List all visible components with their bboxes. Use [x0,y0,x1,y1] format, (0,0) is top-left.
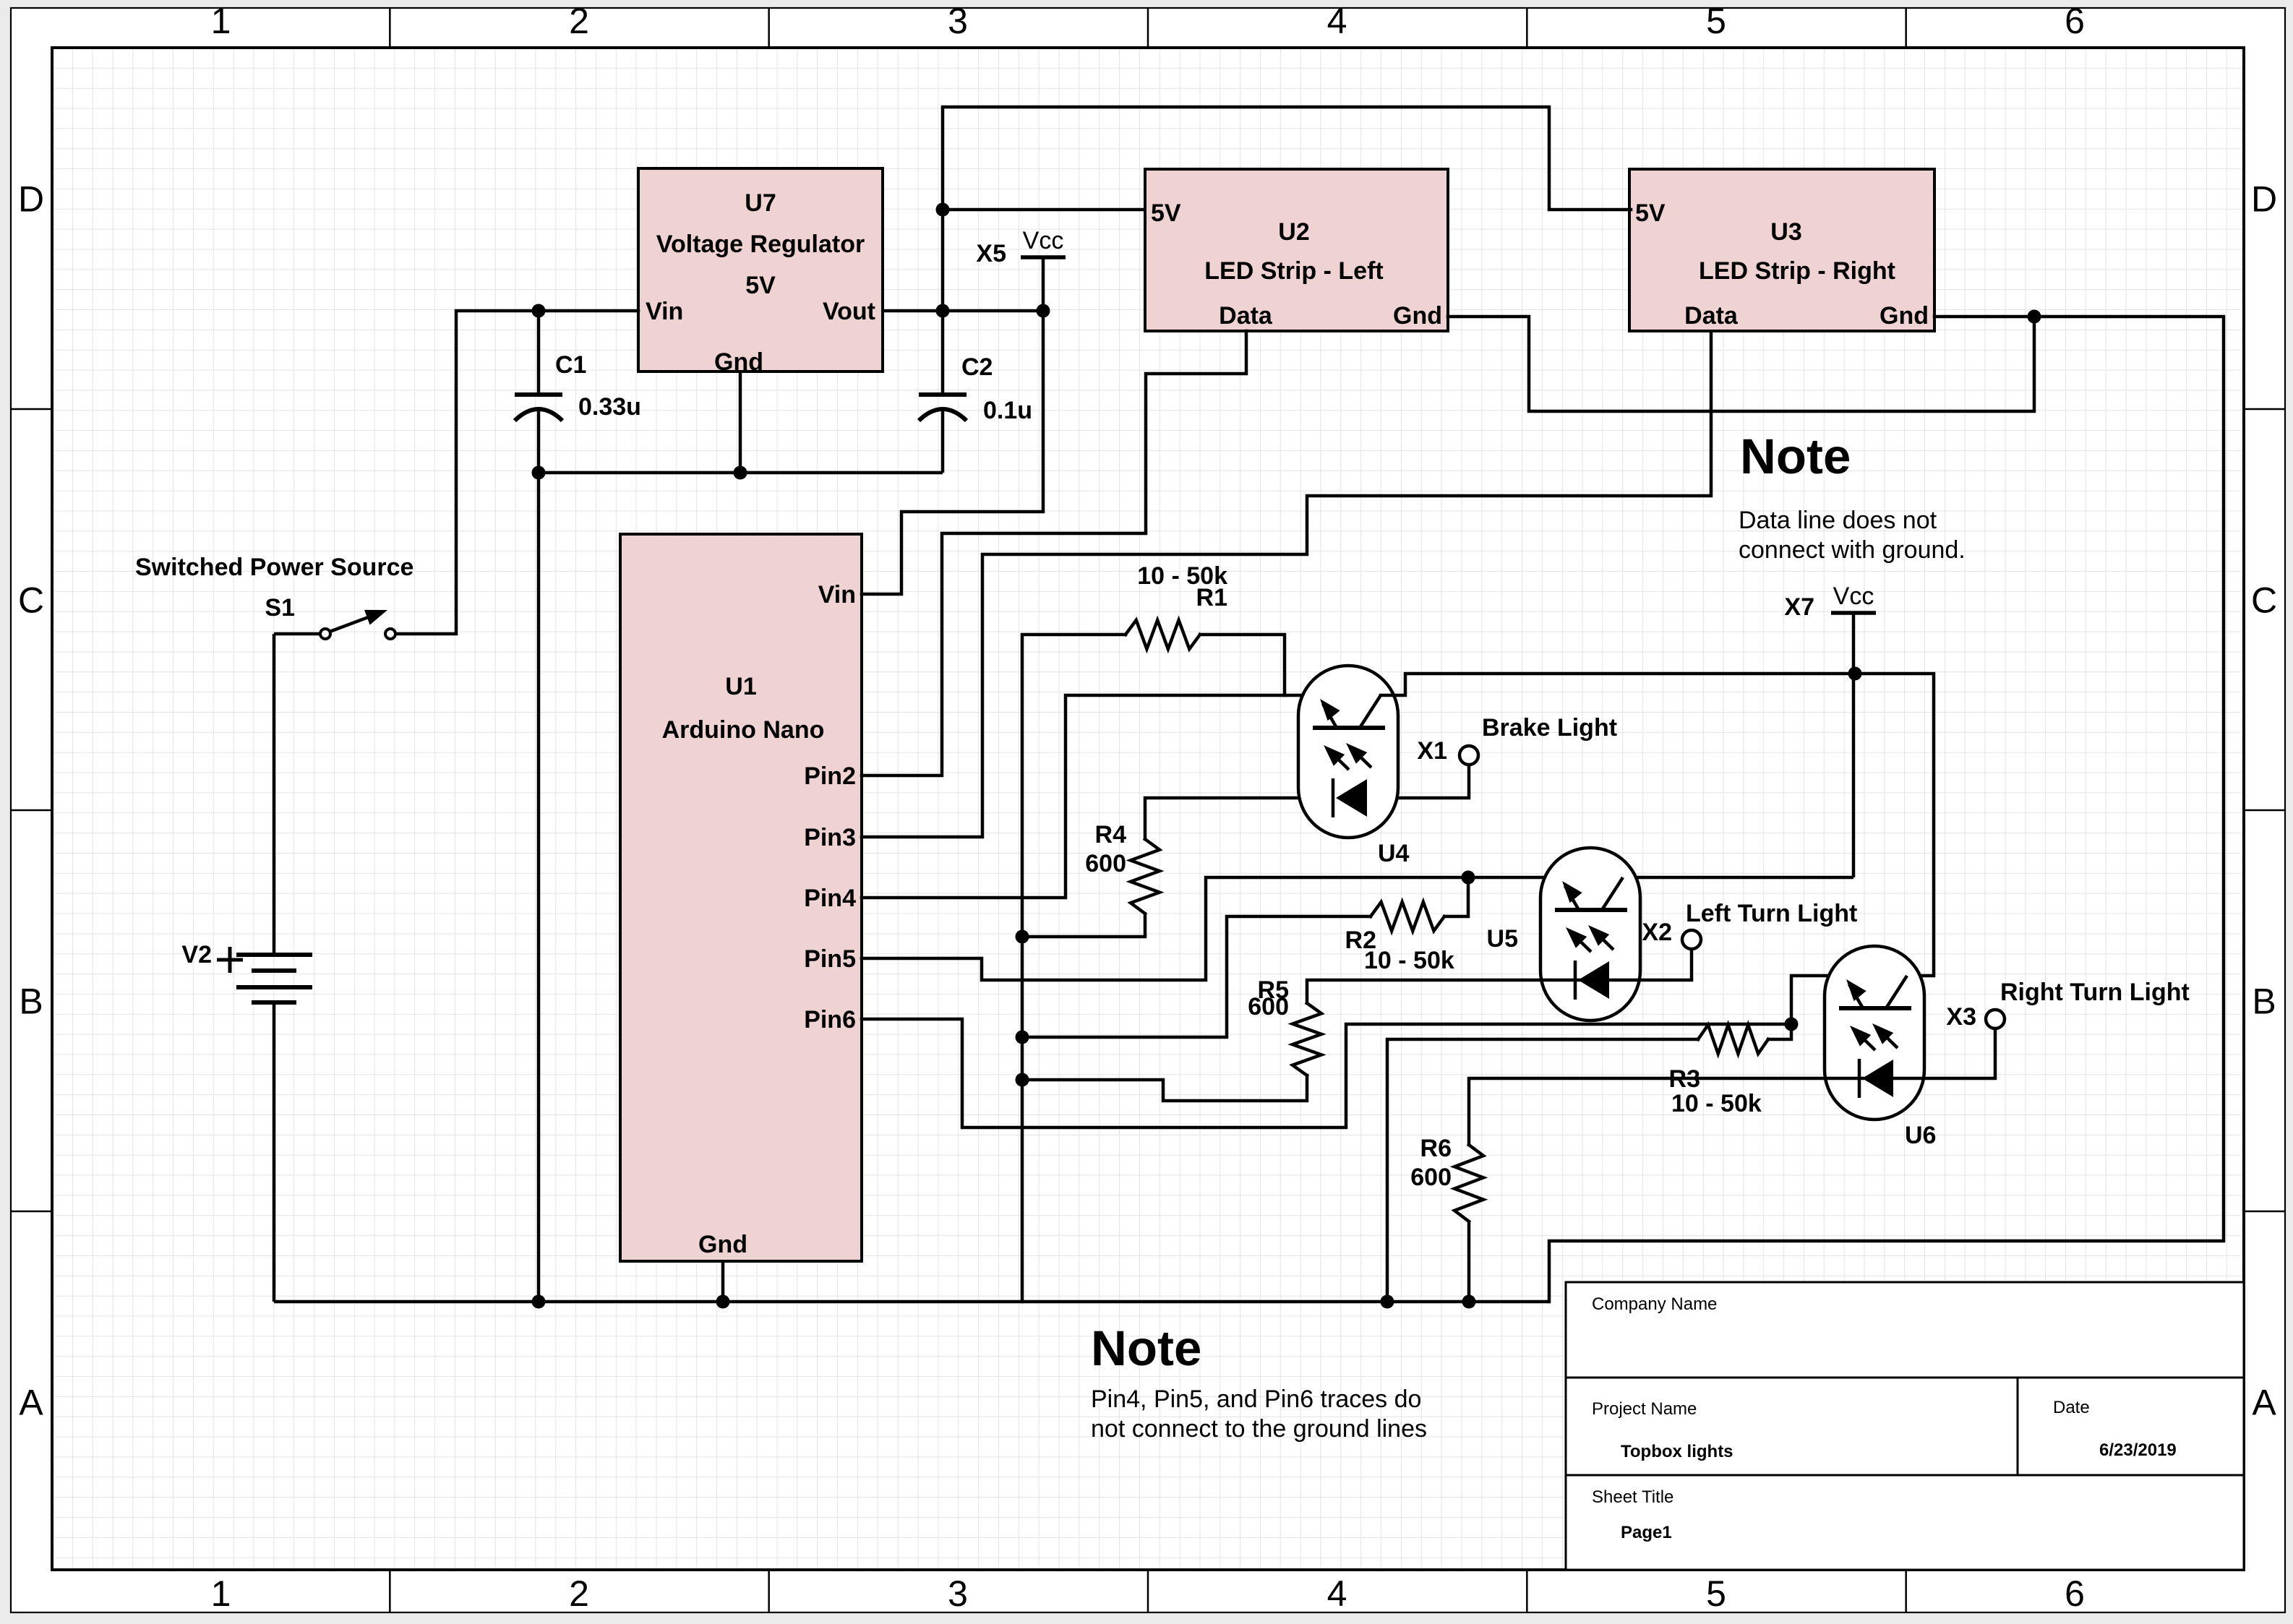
terminal X2 [1682,930,1701,949]
wire ground rail [274,1300,1549,1304]
svg-text:U6: U6 [1905,1122,1936,1149]
wire R1 right lead to emitter line [1200,635,1285,695]
wire Arduino Pin6 to U6 emitter branch [862,1019,1791,1127]
wire Vout node vertical (C2/5V riser) [941,107,945,311]
svg-text:5: 5 [1706,1,1726,41]
resistor R2 [1371,902,1444,931]
svg-text:U1: U1 [725,673,756,700]
junction R3/ground rail [1381,1295,1394,1309]
junction U3 Gnd node [2028,310,2041,324]
svg-text:Arduino Nano: Arduino Nano [662,716,825,744]
svg-text:Vin: Vin [818,581,856,609]
phototransistor U6 [1825,946,1924,1120]
svg-text:Pin4, Pin5, and Pin6 traces do: Pin4, Pin5, and Pin6 traces do [1091,1385,1421,1413]
wire U2 Gnd over to U3 Gnd node [1448,317,2034,411]
svg-text:Voltage Regulator: Voltage Regulator [656,231,865,258]
svg-text:2: 2 [569,1,589,41]
battery plus sign [217,947,243,973]
resistor R3 [1698,1025,1768,1054]
svg-text:Pin3: Pin3 [804,824,856,851]
svg-text:R4: R4 [1095,821,1127,848]
wire R5 bottom to pulldown bus [1022,1075,1307,1101]
svg-text:4: 4 [1327,1573,1347,1614]
svg-text:connect with ground.: connect with ground. [1739,536,1966,564]
svg-text:6: 6 [2065,1,2085,41]
svg-text:C1: C1 [555,351,586,379]
voltage regulator U7 [638,168,883,376]
wire R4 bottom to pulldown bus [1022,935,1145,939]
wire U5 collector to Vcc stem [1621,876,1853,880]
wire R1 left lead / pulldown bus down to ground rail [1022,635,1126,1302]
junction Vin/C1 [532,304,546,318]
svg-text:Note: Note [1740,429,1851,484]
wire Arduino Pin5 to U5 emitter [862,877,1561,980]
svg-text:Vin: Vin [646,298,683,325]
svg-text:not connect to the ground line: not connect to the ground lines [1091,1415,1427,1443]
svg-text:Pin6: Pin6 [804,1006,856,1034]
junction C1/gnd bus [532,466,546,480]
svg-text:3: 3 [948,1,968,41]
svg-text:U5: U5 [1487,925,1518,953]
Arduino Nano U1 [620,534,862,1261]
svg-text:Data line does not: Data line does not [1739,507,1937,534]
title block [1566,1282,2244,1570]
svg-text:U2: U2 [1278,218,1309,246]
capacitor C1 [515,311,562,473]
svg-text:6: 6 [2065,1573,2085,1614]
svg-text:10 - 50k: 10 - 50k [1364,947,1454,974]
junction R2/U5 emitter [1462,871,1475,885]
wire gnd bus U7/C1/C2 [539,471,943,475]
wire 5V branch to U2 5V pin [943,208,1145,212]
svg-text:Gnd: Gnd [698,1231,747,1258]
wire U2 Data to Arduino Pin2 [862,331,1246,776]
svg-text:U4: U4 [1378,840,1410,867]
svg-text:A: A [2252,1383,2276,1423]
svg-text:Note: Note [1091,1320,1201,1376]
svg-text:Vcc: Vcc [1023,227,1064,254]
svg-text:C: C [18,580,44,621]
capacitor C2 [919,311,967,473]
wire U4 collector to Vcc node [1381,674,1855,695]
svg-text:Topbox lights: Topbox lights [1621,1442,1733,1461]
power symbol X5 Vcc [1021,227,1066,257]
junction R6/ground rail [1462,1295,1476,1309]
wire X5 Vcc stem down to Arduino Vin [862,257,1043,594]
junction R5 branch [1016,1073,1029,1087]
junction U7 Gnd [734,466,747,480]
wire R3 left lead down to ground rail [1387,1039,1698,1302]
svg-text:10 - 50k: 10 - 50k [1137,562,1227,590]
svg-text:Pin4: Pin4 [804,885,856,912]
svg-text:5V: 5V [745,272,776,299]
wire R3 right lead to U6 emitter [1768,976,1844,1039]
wire Vcc to U6 collector [1855,674,1934,976]
junction Pin6/R3/U6 emitter [1785,1018,1799,1031]
svg-text:1: 1 [211,1573,231,1614]
svg-text:Pin5: Pin5 [804,945,856,973]
junction Vout/X5 [1037,304,1050,318]
svg-text:1: 1 [211,1,231,41]
wire U3 Gnd to right-edge ground return [1549,317,2224,1302]
svg-text:Sheet Title: Sheet Title [1592,1487,1673,1507]
svg-text:Company Name: Company Name [1592,1294,1717,1314]
resistor R1 [1126,620,1200,649]
switch S1 [274,610,395,639]
svg-text:Vout: Vout [823,298,875,325]
svg-text:5V: 5V [1151,199,1181,227]
svg-text:0.33u: 0.33u [578,393,641,421]
svg-text:LED Strip - Right: LED Strip - Right [1699,257,1895,285]
phototransistor U5 [1540,848,1640,1021]
svg-text:5: 5 [1706,1573,1726,1614]
resistor R6 [1454,1145,1483,1221]
svg-text:X2: X2 [1642,919,1672,946]
junction C1/ground rail [532,1295,546,1309]
wire 5V top rail from Vout node to U3 5V pin [943,107,1631,210]
svg-text:2: 2 [569,1573,589,1614]
LED strip U2 [1145,169,1448,331]
svg-text:D: D [18,179,44,220]
wire C1 down to ground rail [537,473,541,1302]
junction R2 branch [1016,1031,1029,1044]
svg-text:D: D [2251,179,2277,220]
svg-text:600: 600 [1410,1164,1452,1191]
svg-text:X7: X7 [1784,593,1814,621]
svg-text:Data: Data [1684,302,1739,330]
note pin traces [1091,1320,1427,1443]
wire X7 Vcc stem [1852,613,1856,877]
junction R4 bottom [1016,930,1029,944]
svg-text:B: B [2252,981,2276,1022]
svg-text:Data: Data [1219,302,1273,330]
wire U7 Vout to X5 Vcc node [881,309,1043,313]
svg-text:A: A [19,1383,43,1423]
svg-text:Project Name: Project Name [1592,1399,1697,1419]
terminal X1 [1460,746,1478,765]
svg-text:Vcc: Vcc [1833,583,1874,610]
svg-text:Switched Power Source: Switched Power Source [135,554,413,581]
svg-text:10 - 50k: 10 - 50k [1671,1090,1762,1117]
wire Arduino Pin3 to U3 Data [862,332,1711,837]
wire Arduino Gnd pin down [721,1261,725,1302]
svg-text:600: 600 [1085,850,1126,877]
svg-text:Gnd: Gnd [1393,302,1442,330]
svg-text:U3: U3 [1770,218,1801,246]
svg-text:X5: X5 [976,240,1006,267]
terminal X3 [1986,1010,2005,1028]
svg-text:X3: X3 [1946,1003,1976,1031]
svg-text:Date: Date [2053,1398,2090,1417]
svg-text:U7: U7 [745,189,776,217]
svg-text:5V: 5V [1635,199,1666,227]
svg-text:Brake Light: Brake Light [1482,714,1617,742]
svg-text:Pin2: Pin2 [804,762,856,790]
svg-text:Gnd: Gnd [1880,302,1929,330]
svg-text:R6: R6 [1420,1135,1452,1162]
svg-text:Right Turn Light: Right Turn Light [2000,979,2190,1006]
svg-text:LED Strip - Left: LED Strip - Left [1204,257,1383,285]
wire R2 left lead to pulldown bus [1022,916,1371,1037]
svg-text:S1: S1 [265,594,295,622]
note data line [1739,429,1966,564]
svg-text:4: 4 [1327,1,1347,41]
svg-text:0.1u: 0.1u [983,397,1032,424]
svg-text:3: 3 [948,1573,968,1614]
svg-text:Left Turn Light: Left Turn Light [1686,900,1857,927]
wire R5 top to U5 LED line and X2 [1307,980,1692,1003]
wire R2 right lead up to emitter line [1444,877,1468,916]
wire Arduino Pin4 to U4 emitter [862,695,1316,898]
junction Vout/C2 [936,304,950,318]
svg-text:B: B [19,981,43,1022]
wire R4 top to U4 LED line and X1 [1145,765,1469,839]
phototransistor U4 [1298,666,1398,838]
switch S1 to U7 Vin wire [390,311,638,634]
LED strip U3 [1629,169,1934,331]
svg-text:6/23/2019: 6/23/2019 [2099,1440,2177,1460]
wire R6 bottom to ground rail [1467,1221,1471,1302]
svg-text:X1: X1 [1417,737,1447,765]
svg-text:C: C [2251,580,2277,621]
resistor R4 [1131,839,1160,914]
svg-text:C2: C2 [961,353,993,381]
svg-text:Page1: Page1 [1621,1523,1672,1542]
wire X2 stem [1690,949,1694,980]
junction Arduino Gnd/rail [716,1295,730,1309]
wire U7 Gnd pin down [739,371,742,473]
junction Vcc distribution [1848,667,1862,681]
wire R6 top to U6 LED line and X3 [1469,1028,1995,1145]
svg-text:V2: V2 [181,941,212,968]
power symbol X7 Vcc [1831,583,1876,613]
resistor R5 [1293,1003,1321,1075]
junction at 5V branch [936,203,950,217]
battery V2 [236,634,312,1302]
svg-text:600: 600 [1248,993,1289,1021]
